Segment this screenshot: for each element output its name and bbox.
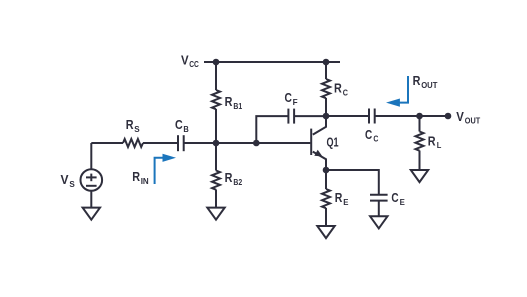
label RIN <box>132 169 148 186</box>
label RE <box>335 190 349 207</box>
source VS <box>81 143 103 207</box>
wire CF branch <box>256 116 288 143</box>
svg-text:OUT: OUT <box>421 80 438 90</box>
svg-text:V: V <box>456 109 464 124</box>
capacitor CB <box>178 135 184 151</box>
svg-text:C: C <box>175 117 183 132</box>
svg-text:B: B <box>183 124 188 134</box>
svg-text:R: R <box>428 134 436 149</box>
svg-text:R: R <box>335 190 343 205</box>
node base-CF junction <box>253 140 260 147</box>
ground below RB2 <box>207 208 224 220</box>
svg-text:OUT: OUT <box>465 116 481 126</box>
svg-text:S: S <box>69 179 75 189</box>
capacitor CF <box>288 109 294 124</box>
capacitor CE <box>370 195 388 201</box>
terminal VOUT <box>445 113 452 120</box>
svg-text:L: L <box>437 140 442 150</box>
svg-text:C: C <box>343 87 348 97</box>
label VCC <box>181 53 199 70</box>
wire CE to ground <box>378 201 380 217</box>
svg-text:C: C <box>391 190 399 205</box>
resistor RS <box>123 139 143 147</box>
ground below VS <box>83 208 100 220</box>
resistor RB2 <box>212 143 220 207</box>
node RL junction <box>416 113 423 120</box>
svg-text:B2: B2 <box>233 177 242 187</box>
wire VCC rail <box>204 61 340 63</box>
node VCC junction <box>213 59 220 66</box>
label RS <box>126 117 140 134</box>
arrow ROUT <box>386 76 408 107</box>
resistor RE <box>322 170 330 226</box>
label RB1 <box>225 94 243 111</box>
svg-text:V: V <box>181 53 189 68</box>
resistor RC <box>322 62 330 116</box>
svg-text:C: C <box>285 90 293 105</box>
wire CF to collector <box>294 115 326 117</box>
svg-text:R: R <box>334 81 342 96</box>
svg-text:R: R <box>225 94 233 109</box>
label CF <box>285 90 298 107</box>
label VOUT <box>456 109 481 126</box>
wire RS to CB <box>143 142 178 144</box>
label ROUT <box>413 73 439 90</box>
svg-text:E: E <box>343 197 349 207</box>
ground below CE <box>370 216 387 228</box>
wire CB to base <box>184 142 311 144</box>
node emitter junction <box>323 167 330 174</box>
label CE <box>391 190 405 207</box>
wire collector to CC <box>326 115 369 117</box>
svg-text:CC: CC <box>189 59 199 69</box>
svg-text:F: F <box>293 97 298 107</box>
svg-text:R: R <box>132 169 140 184</box>
ground below RE <box>317 226 334 238</box>
label RC <box>334 81 348 98</box>
label CB <box>175 117 189 134</box>
svg-text:R: R <box>225 170 233 185</box>
svg-text:V: V <box>61 172 69 187</box>
node base-RB junction <box>213 140 220 147</box>
svg-text:C: C <box>365 127 373 142</box>
svg-text:E: E <box>400 197 406 207</box>
wire CC to VOUT <box>375 115 448 117</box>
svg-text:IN: IN <box>141 176 149 186</box>
svg-text:Q1: Q1 <box>327 135 339 150</box>
transistor Q1 <box>311 116 326 170</box>
node rail-RC junction <box>323 59 330 66</box>
wire input row left <box>91 142 123 144</box>
svg-text:C: C <box>373 134 378 144</box>
label RL <box>428 134 442 151</box>
label VS <box>61 172 76 189</box>
svg-text:B1: B1 <box>233 101 242 111</box>
svg-text:S: S <box>134 124 140 134</box>
label RB2 <box>225 170 243 187</box>
wire emitter to CE <box>326 170 379 195</box>
ground below RL <box>411 170 428 182</box>
resistor RB1 <box>212 62 220 143</box>
node collector junction <box>323 113 330 120</box>
svg-text:R: R <box>126 117 134 132</box>
resistor RL <box>416 116 424 170</box>
arrow RIN <box>155 154 176 184</box>
capacitor CC <box>369 109 375 124</box>
svg-text:R: R <box>413 73 421 88</box>
label CC <box>365 127 378 144</box>
